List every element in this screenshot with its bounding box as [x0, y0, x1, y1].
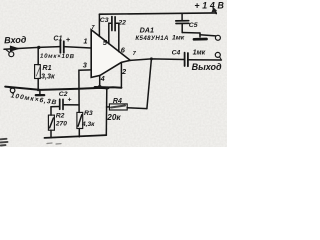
supply minus terminal [215, 35, 220, 40]
svg-text:С3: С3 [100, 17, 109, 24]
svg-text:R1: R1 [42, 63, 51, 72]
node R1 bottom [37, 88, 40, 91]
svg-text:R3: R3 [84, 110, 93, 117]
svg-text:К548УН1А: К548УН1А [135, 35, 168, 42]
scan artifact bottom center [47, 143, 61, 144]
bottom rail [45, 135, 107, 138]
svg-text:4: 4 [100, 76, 105, 83]
ground symbol supply [194, 33, 207, 39]
ground bus thick blob [95, 86, 108, 89]
svg-text:+14В: +14В [194, 0, 224, 10]
wire rail drop to opamp [98, 14, 100, 36]
svg-text:R2: R2 [56, 113, 65, 120]
svg-text:2: 2 [121, 67, 127, 76]
scan artifact bottom left [1, 139, 8, 146]
node junction C1/R1 [37, 46, 40, 49]
svg-text:22: 22 [117, 20, 126, 27]
svg-text:Выход: Выход [192, 62, 222, 72]
wire output down to R4 [147, 59, 152, 109]
output terminal [215, 52, 220, 57]
op-amp DA1 triangle [91, 30, 130, 78]
node bus vertical [105, 87, 108, 90]
wire to minus terminal [200, 35, 215, 36]
svg-text:20к: 20к [106, 113, 121, 122]
pin 4 stub [99, 76, 101, 87]
capacitor C2 [51, 99, 79, 109]
ground bus wire [5, 87, 121, 90]
ground input terminal [10, 88, 15, 93]
svg-text:1: 1 [83, 37, 87, 46]
svg-text:3,3к: 3,3к [41, 72, 55, 81]
svg-text:С4: С4 [172, 50, 181, 57]
wire bus to bottom rail [105, 88, 108, 135]
svg-text:1мк: 1мк [172, 35, 185, 42]
svg-text:С5: С5 [189, 22, 198, 29]
capacitor C3 [109, 17, 119, 52]
capacitor C4 [185, 53, 222, 67]
svg-text:R4: R4 [113, 98, 122, 105]
arrow on input wire [10, 46, 19, 51]
wire output [130, 59, 184, 61]
capacitor C1 [60, 41, 63, 52]
capacitor C5 [176, 14, 200, 33]
resistor R2 [48, 107, 54, 138]
top supply rail [99, 13, 216, 14]
wire C1 to pin1 [64, 47, 91, 48]
svg-text:270: 270 [55, 121, 67, 128]
pin 2 stub [120, 63, 122, 88]
svg-text:Вход: Вход [4, 35, 27, 46]
svg-text:1мк: 1мк [193, 50, 206, 57]
resistor R1 [35, 47, 41, 89]
svg-text:+: + [68, 97, 72, 104]
resistor R3 [77, 112, 83, 136]
svg-text:С1: С1 [53, 35, 62, 42]
resistor R4 [107, 104, 147, 110]
wire input to C1 [4, 47, 60, 50]
svg-text:+: + [66, 35, 71, 44]
supply arrow terminal [212, 8, 217, 14]
svg-text:С2: С2 [59, 91, 68, 98]
node pin4 [98, 85, 102, 89]
wire pin3 down to R3 [79, 70, 91, 113]
input terminal [9, 52, 14, 57]
node output R4 [150, 57, 153, 60]
svg-text:DA1: DA1 [140, 25, 154, 34]
svg-text:4,3к: 4,3к [81, 121, 95, 128]
ground symbol [36, 90, 44, 95]
svg-text:10мк×10В: 10мк×10В [40, 54, 75, 61]
